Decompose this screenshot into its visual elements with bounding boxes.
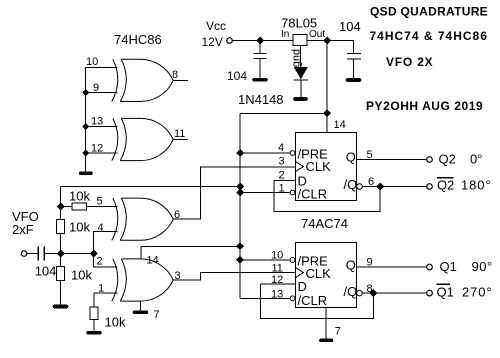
svg-text:74HC74 & 74HC86: 74HC74 & 74HC86 [370,29,488,43]
pin 10 bubble [290,258,295,263]
terminal VFO input [21,251,27,257]
node junction 9 [82,89,89,96]
svg-text:VFO 2X: VFO 2X [386,55,433,69]
svg-text:In: In [281,29,289,40]
node junction Q2bar [376,183,384,191]
svg-text:CLK: CLK [306,266,332,281]
svg-text:Out: Out [309,29,325,40]
svg-text:/Q: /Q [344,177,358,192]
node junction C1 [256,37,264,45]
resistor R4 10k [90,307,98,320]
pin 1 bubble [290,190,295,195]
pin 10 wire [240,259,290,261]
svg-text:0°: 0° [470,152,482,167]
svg-text:10: 10 [86,56,98,68]
svg-text:Q: Q [346,150,356,165]
pin 1 wire [240,192,290,194]
svg-text:2: 2 [97,256,103,268]
pin 4 bubble [290,151,295,156]
node junction rail [323,109,331,117]
wire ground bus left [85,93,87,172]
pin 13 bubble [290,296,295,301]
terminal Q2bar [427,184,433,190]
node junction gate [90,250,98,258]
wire U1 pin 7 gnd [140,301,142,311]
svg-text:90°: 90° [472,259,493,274]
capacitor C1 104 [259,41,261,54]
wire VFO to C3 [27,253,38,255]
svg-text:/Q: /Q [344,284,358,299]
pin 2 D wire [274,179,296,181]
svg-text:6: 6 [368,176,374,188]
svg-text:10: 10 [271,250,283,262]
wire U2 pin 7 gnd [325,308,327,339]
svg-text:13: 13 [91,116,103,128]
svg-text:4: 4 [278,142,284,154]
wire input 1 to R4 [94,293,118,307]
node junction 12 [82,150,89,157]
wire bias rail [61,186,241,188]
ground U1 [135,310,147,314]
svg-text:7: 7 [154,309,160,321]
svg-text:2xF: 2xF [12,222,34,237]
label Q2bar 180deg [437,177,454,179]
xor gate U1A [112,59,173,101]
ground U2 [321,339,332,343]
wire regulator out [307,40,354,42]
wire rail to left [240,112,327,114]
pin 8 wire [363,292,427,294]
wire input 13 [86,126,118,128]
flipflop U2B box [296,243,357,308]
node junction 13 [82,123,89,130]
pin 5 wire Q [357,159,427,161]
resistor R1 10k [61,206,73,208]
clk triangle U2A [296,162,304,172]
ground R4 [88,331,100,335]
wire 5V rail down [326,41,328,133]
svg-text:10k: 10k [69,189,90,204]
ground C1 [254,78,266,82]
svg-text:11: 11 [272,263,283,275]
svg-text:104: 104 [339,19,361,34]
svg-text:10k: 10k [105,315,126,330]
node junction pin14 [236,242,244,250]
node junction pin1 [236,189,244,197]
svg-text:10k: 10k [69,220,90,235]
wire output 11 [173,139,188,141]
node junction bias [236,183,244,191]
ground [81,172,92,175]
capacitor C3 104 [37,247,39,261]
terminal Q2 [427,157,433,163]
terminal Vcc input [227,38,233,44]
node junction pin4 [236,149,244,157]
svg-text:8: 8 [172,69,178,81]
svg-text:104: 104 [35,263,57,278]
pin 9 wire Q [357,266,427,268]
wire node to gates [61,253,94,255]
wire input 9 [86,92,118,94]
svg-text:1N4148: 1N4148 [238,92,284,107]
wire to input 4 [94,231,118,253]
node junction pin10 [236,256,244,264]
node junction R1 [57,203,65,211]
wire output 8 [173,80,188,82]
svg-text:Q2: Q2 [439,152,456,167]
wire to input 2 [94,254,118,268]
wire U1 pin 14 power [141,246,240,258]
regulator U3 78L05 [293,35,307,46]
svg-text:/CLR: /CLR [298,293,328,308]
svg-text:Vcc: Vcc [206,19,226,33]
pin 12 D wire [260,283,295,285]
wire Vcc vertical bus [239,113,241,298]
ground C2 [348,78,360,82]
xor gate U1C [112,198,173,240]
resistor R2 10k [57,220,65,234]
svg-text:Q1: Q1 [437,285,454,300]
pin 8 bubble [357,290,363,296]
svg-text:Q: Q [346,258,356,273]
svg-text:104: 104 [227,69,247,83]
svg-text:9: 9 [367,257,373,269]
terminal Q1bar [427,290,433,296]
xor gate U1D [112,259,173,301]
svg-text:180°: 180° [461,177,492,192]
svg-text:gnd: gnd [291,49,303,67]
pin 13 wire [240,297,290,299]
wire feedback U2B [260,284,373,318]
node junction out [323,37,331,45]
xor gate U1B [112,118,173,160]
label Q1bar 270deg [437,283,451,285]
svg-text:3: 3 [175,270,181,282]
svg-text:/CLR: /CLR [298,187,328,202]
svg-text:14: 14 [147,255,159,267]
svg-text:14: 14 [334,119,346,131]
svg-text:Q1: Q1 [440,259,457,274]
wire feedback U2A [274,180,380,211]
capacitor C2 104 [353,41,355,54]
ground R3 [55,305,67,309]
svg-text:QSD QUADRATURE: QSD QUADRATURE [370,5,488,19]
svg-text:2: 2 [279,170,285,182]
svg-text:10k: 10k [71,268,92,283]
wire regulator gnd [300,46,302,67]
wire bias vertical [60,187,62,220]
svg-text:74HC86: 74HC86 [114,32,162,47]
svg-text:6: 6 [174,209,180,221]
flipflop U2A box [296,133,357,201]
diode D1 1N4148 [294,67,308,79]
node junction VFO [57,250,65,258]
svg-text:270°: 270° [462,285,493,300]
svg-text:3: 3 [279,156,285,168]
wire input 12 [86,152,118,154]
svg-text:4: 4 [98,222,104,234]
svg-text:11: 11 [174,128,185,140]
resistor R3 10k [60,254,62,267]
wire output 6 to CLK [173,167,296,219]
pin 6 bubble [357,184,363,190]
svg-text:PY2OHH AUG 2019: PY2OHH AUG 2019 [366,99,483,113]
wire Vcc to regulator [233,40,294,42]
pin 4 wire [240,152,290,154]
terminal Q1 [427,264,433,270]
svg-text:D: D [298,279,307,294]
svg-text:5: 5 [97,196,103,208]
svg-text:CLK: CLK [306,159,332,174]
node junction Q1bar [369,289,377,297]
svg-text:74AC74: 74AC74 [301,216,348,231]
svg-text:5: 5 [367,149,373,161]
wire output 3 to CLK2 [173,273,296,281]
clk triangle U2B [296,268,304,278]
pin 6 wire [363,186,427,188]
svg-text:12V: 12V [202,35,223,49]
ground D1 [295,97,306,101]
wire input 10 [86,68,118,93]
svg-text:Q2: Q2 [437,177,454,192]
svg-text:7: 7 [335,326,341,338]
